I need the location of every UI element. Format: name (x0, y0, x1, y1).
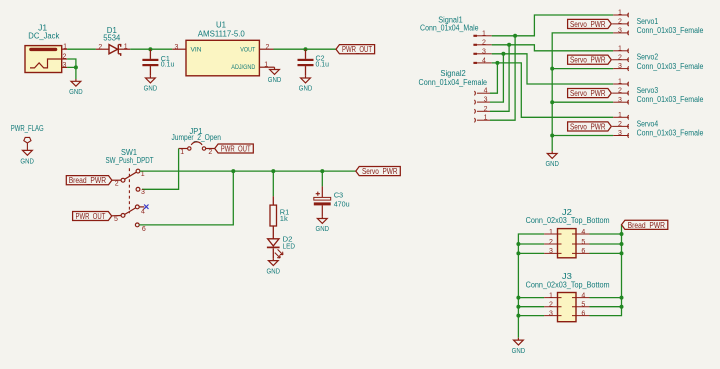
svg-text:GND: GND (268, 75, 282, 84)
svg-text:Servo4: Servo4 (637, 119, 659, 128)
svg-text:2: 2 (618, 121, 622, 128)
svg-text:Jumper_2_Open: Jumper_2_Open (171, 133, 221, 142)
svg-text:1: 1 (482, 31, 486, 38)
svg-text:PWR_OUT: PWR_OUT (221, 144, 251, 154)
svg-text:Conn_02x03_Top_Bottom: Conn_02x03_Top_Bottom (526, 216, 610, 225)
svg-text:3: 3 (618, 28, 622, 35)
svg-text:2: 2 (618, 88, 622, 95)
svg-text:Servo_PWR: Servo_PWR (362, 166, 398, 176)
svg-text:Conn_02x03_Top_Bottom: Conn_02x03_Top_Bottom (526, 280, 610, 289)
svg-text:4: 4 (581, 292, 585, 299)
svg-text:0.1u: 0.1u (161, 60, 175, 69)
svg-text:GND: GND (267, 266, 281, 275)
svg-text:1: 1 (124, 44, 128, 51)
svg-text:Conn_01x04_Female: Conn_01x04_Female (419, 78, 488, 87)
svg-text:Bread_PWR: Bread_PWR (69, 175, 106, 185)
svg-text:2: 2 (265, 44, 269, 51)
svg-text:2: 2 (549, 302, 553, 309)
svg-text:Conn_01x03_Female: Conn_01x03_Female (637, 62, 704, 71)
svg-text:4: 4 (141, 209, 145, 216)
svg-text:AMS1117-5.0: AMS1117-5.0 (198, 29, 246, 38)
svg-text:GND: GND (69, 87, 83, 96)
svg-text:GND: GND (316, 224, 330, 233)
svg-text:2: 2 (115, 180, 119, 187)
svg-text:PWR_OUT: PWR_OUT (342, 44, 372, 54)
svg-text:3: 3 (618, 63, 622, 70)
svg-text:6: 6 (581, 310, 585, 317)
svg-text:Servo1: Servo1 (637, 17, 659, 26)
svg-text:4: 4 (581, 229, 585, 236)
svg-text:1: 1 (180, 149, 184, 156)
svg-text:1: 1 (141, 171, 145, 178)
svg-text:1: 1 (63, 44, 67, 51)
svg-text:3: 3 (549, 248, 553, 255)
svg-text:5: 5 (581, 239, 585, 246)
svg-text:4: 4 (482, 58, 486, 65)
svg-text:C3: C3 (334, 191, 344, 200)
svg-text:1: 1 (264, 62, 268, 69)
svg-text:6: 6 (142, 226, 146, 233)
svg-text:1: 1 (618, 45, 622, 52)
svg-text:Conn_01x03_Female: Conn_01x03_Female (637, 95, 704, 104)
svg-text:2: 2 (549, 239, 553, 246)
svg-text:Conn_01x03_Female: Conn_01x03_Female (637, 26, 704, 35)
svg-text:PWR_FLAG: PWR_FLAG (11, 124, 44, 133)
svg-text:1: 1 (549, 292, 553, 299)
svg-text:1: 1 (549, 229, 553, 236)
svg-text:SW_Push_DPDT: SW_Push_DPDT (106, 156, 154, 165)
svg-text:5534: 5534 (103, 33, 121, 42)
svg-text:3: 3 (482, 49, 486, 56)
svg-text:Conn_01x04_Male: Conn_01x04_Male (420, 24, 479, 33)
svg-text:2: 2 (618, 54, 622, 61)
svg-text:VIN: VIN (191, 47, 202, 54)
svg-text:2: 2 (484, 106, 488, 113)
svg-text:GND: GND (512, 346, 526, 355)
svg-text:Servo_PWR: Servo_PWR (570, 121, 606, 131)
svg-text:1k: 1k (280, 214, 288, 223)
svg-text:3: 3 (618, 130, 622, 137)
svg-text:3: 3 (141, 189, 145, 196)
svg-text:2: 2 (618, 19, 622, 26)
svg-text:470u: 470u (334, 200, 350, 209)
svg-text:GND: GND (545, 159, 559, 168)
svg-text:ADJ/GND: ADJ/GND (231, 64, 255, 71)
svg-text:PWR_OUT: PWR_OUT (75, 211, 105, 221)
svg-text:GND: GND (299, 84, 313, 93)
svg-text:LED: LED (283, 242, 296, 251)
svg-text:1: 1 (618, 112, 622, 119)
svg-text:Servo_PWR: Servo_PWR (570, 19, 606, 29)
svg-text:1: 1 (618, 79, 622, 86)
svg-text:5: 5 (581, 302, 585, 309)
svg-text:6: 6 (581, 248, 585, 255)
svg-text:0.1u: 0.1u (316, 59, 330, 68)
svg-text:3: 3 (175, 44, 179, 51)
svg-text:Servo_PWR: Servo_PWR (570, 88, 606, 98)
svg-text:Conn_01x03_Female: Conn_01x03_Female (637, 129, 704, 138)
svg-text:2: 2 (208, 149, 212, 156)
svg-text:3: 3 (62, 62, 66, 69)
svg-text:2: 2 (62, 54, 66, 61)
svg-text:1: 1 (618, 10, 622, 17)
svg-text:GND: GND (20, 156, 34, 165)
svg-text:DC_Jack: DC_Jack (28, 32, 60, 41)
svg-text:2: 2 (98, 44, 102, 51)
svg-text:Servo_PWR: Servo_PWR (570, 55, 606, 65)
svg-text:3: 3 (549, 310, 553, 317)
svg-text:Signal2: Signal2 (440, 69, 466, 78)
svg-text:VOUT: VOUT (240, 47, 255, 54)
svg-text:3: 3 (618, 97, 622, 104)
svg-text:3: 3 (484, 97, 488, 104)
svg-text:Servo3: Servo3 (637, 86, 659, 95)
svg-text:2: 2 (482, 40, 486, 47)
svg-text:Servo2: Servo2 (637, 53, 659, 62)
svg-text:4: 4 (484, 88, 488, 95)
svg-text:U1: U1 (216, 21, 227, 30)
svg-text:Bread_PWR: Bread_PWR (628, 220, 665, 230)
svg-text:5: 5 (114, 216, 118, 223)
svg-text:1: 1 (484, 115, 488, 122)
svg-text:GND: GND (144, 84, 158, 93)
